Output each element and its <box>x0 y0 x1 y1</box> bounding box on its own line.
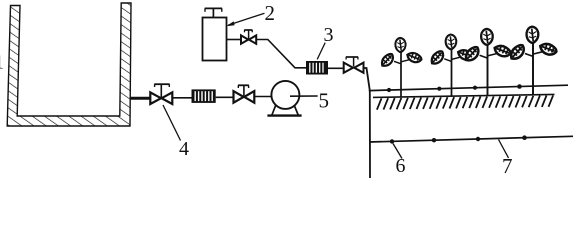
wire: elbow + riser down <box>364 68 371 178</box>
leader to label 6 <box>393 144 402 159</box>
plant P4 <box>508 27 558 95</box>
wire <box>172 97 191 99</box>
svg-text:1: 1 <box>0 52 4 74</box>
wire: thick suction pipe from tank <box>130 97 151 100</box>
emitter dot E4 <box>517 84 522 89</box>
ground line <box>373 94 555 97</box>
leader to label 7 <box>499 140 509 159</box>
emitter dot E5 <box>390 139 394 143</box>
svg-text:2: 2 <box>265 1 276 25</box>
ground hatching <box>377 95 553 109</box>
leader to label 4 <box>163 105 181 141</box>
valve VB (before pump) <box>234 85 255 102</box>
svg-text:5: 5 <box>319 89 330 113</box>
svg-text:3: 3 <box>324 24 334 46</box>
wire <box>254 96 271 98</box>
wire: lower lateral 6/7 <box>369 136 573 142</box>
plant P3 <box>463 29 512 96</box>
pump 5 <box>267 81 301 116</box>
emitter dot E8 <box>522 135 527 140</box>
plant P1 <box>379 38 423 97</box>
filter F1 (main line) <box>192 89 216 103</box>
emitter dot E7 <box>476 137 480 141</box>
emitter dot E6 <box>432 138 436 142</box>
svg-text:4: 4 <box>179 138 189 160</box>
wire: diagonal drop to filter 3 <box>256 40 306 68</box>
leader to label 3 <box>317 43 325 60</box>
svg-text:7: 7 <box>502 154 513 178</box>
emitter dot E2 <box>437 87 441 91</box>
water tank 1 (U-shaped hatched walls) <box>7 3 131 126</box>
valve V4 <box>150 84 172 104</box>
wire <box>328 67 344 69</box>
leader to label 5 <box>290 95 318 97</box>
plant P2 <box>429 35 474 97</box>
wire <box>227 39 242 41</box>
wire: upper lateral (drip line) <box>369 85 568 90</box>
filter 3 <box>306 61 328 75</box>
fertilizer tank 2 <box>203 8 227 60</box>
emitter dot E3 <box>473 86 477 90</box>
svg-text:6: 6 <box>396 155 406 177</box>
emitter dot E1 <box>387 88 391 92</box>
leader to label 2 (arrow at tank) <box>228 13 265 25</box>
wire <box>216 96 234 98</box>
valve VT2 (fertilizer tank valve) <box>241 30 256 44</box>
valve V3B (after filter 3) <box>344 57 364 73</box>
